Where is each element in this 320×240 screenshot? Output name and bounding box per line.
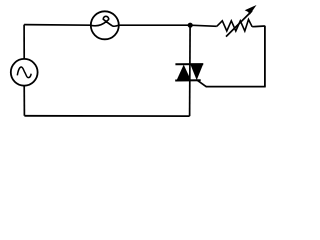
ac source V1 [11,59,38,86]
wire gate horizontal [206,86,266,88]
triac Q1 [175,64,203,81]
wire gate diagonal to triac [197,80,207,87]
rheostat R1 (variable resistor) [217,5,257,37]
wire rheostat to top-right corner [252,25,265,28]
lamp DS1 [91,11,119,39]
wire top-left horizontal (source to lamp) [24,24,91,27]
wire left vertical lower [23,86,25,116]
wire top horizontal (lamp to junction) [119,24,190,26]
wire triac main vertical (junction through triac to bottom) [189,25,192,116]
wire left vertical upper [23,25,25,59]
wire right vertical [264,26,266,87]
node junction dot [188,23,193,28]
wire bottom horizontal [24,115,189,117]
wire top-right (junction to rheostat) [190,25,217,26]
